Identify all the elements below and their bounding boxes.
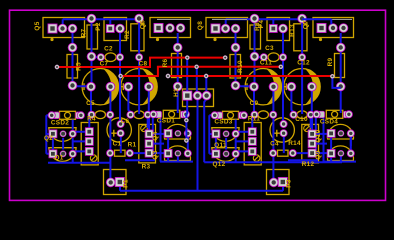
wire Q7 rail stub [302, 19, 331, 24]
svg-text:R1: R1 [128, 141, 137, 148]
pads C1 [117, 120, 124, 127]
pad wings CSD2/CSD1 [53, 111, 187, 118]
wire long mid rail [48, 162, 110, 164]
capacitor C1 outline [107, 118, 131, 142]
pads R1 [107, 150, 114, 157]
svg-text:CSD3: CSD3 [214, 119, 232, 126]
wire center vertical 1 [185, 58, 188, 141]
svg-text:C6: C6 [121, 118, 130, 125]
capacitor C6 outline [134, 111, 144, 119]
pad R7 top [87, 14, 96, 23]
pad C2 right [116, 54, 123, 61]
svg-text:Q10: Q10 [315, 129, 322, 142]
wire R3 stubs [149, 134, 168, 153]
wire R7 column [91, 19, 93, 87]
wire R4 stubs [73, 132, 89, 152]
pad R6 top [173, 43, 182, 52]
wire lower rail [160, 161, 193, 163]
trimpot R4 body [81, 123, 98, 165]
pad C5 left [88, 111, 95, 118]
resistor R6 body [172, 54, 182, 78]
wire R1 to R3 [130, 152, 149, 154]
wire CSD2 left link [46, 115, 51, 154]
svg-text:R10: R10 [237, 60, 244, 73]
wire Q6 / R6 column [177, 33, 179, 113]
svg-text:Q6: Q6 [140, 20, 147, 29]
svg-text:P2: P2 [95, 22, 102, 31]
pads Q3 [164, 149, 172, 157]
svg-text:R6: R6 [162, 58, 169, 67]
svg-text:Q3: Q3 [152, 150, 159, 159]
svg-text:C3: C3 [265, 45, 274, 52]
svg-text:R12: R12 [302, 161, 315, 168]
transistor Q2 outline (outer pair top, bowl) [49, 128, 76, 142]
capacitor C2 outline [105, 53, 116, 62]
wire bus bottom thick [120, 190, 283, 192]
pads R4 [85, 128, 93, 136]
pads Q4 [164, 129, 172, 137]
pad CSD2 cathode [77, 112, 84, 119]
svg-text:C8: C8 [139, 61, 148, 68]
silk inner gray lines Q6/Q8/Q7 [157, 18, 190, 20]
wire via to R9 pad [332, 76, 340, 88]
svg-text:P4: P4 [258, 20, 265, 29]
pad CSD2 anode [48, 112, 55, 119]
svg-text:P3: P3 [286, 179, 293, 188]
pad Q5-1 [48, 24, 57, 33]
svg-text:Q9: Q9 [315, 150, 322, 159]
svg-text:R9: R9 [327, 57, 334, 66]
svg-text:Q4: Q4 [152, 131, 159, 140]
transistor Q3 outline (inner pair bottom, dome) [165, 146, 191, 161]
trace S2 [121, 67, 281, 76]
resistor R5 body [67, 55, 78, 79]
trimpot R3 body [139, 124, 156, 162]
transistor Q6 body [150, 18, 191, 38]
pads R3 [145, 130, 153, 138]
trace S1 [57, 58, 225, 67]
svg-text:C5: C5 [86, 100, 95, 107]
pad C6 right [144, 111, 151, 118]
connector P1 body [104, 170, 127, 195]
svg-text:C4: C4 [270, 140, 279, 147]
wire right outer Q pad stub [350, 137, 352, 146]
svg-text:H1: H1 [173, 88, 180, 97]
resistor R7 body [87, 25, 98, 49]
pad Q5-3 [68, 24, 77, 33]
svg-text:CSD4: CSD4 [320, 119, 338, 126]
wire inner Q columns [168, 137, 188, 162]
svg-text:P1: P1 [123, 179, 130, 188]
diode CSD1 body [163, 110, 180, 118]
capacitor C5 outline [95, 111, 105, 119]
pad C8 + [124, 82, 133, 91]
wire center vertical 3 [204, 76, 206, 162]
pads Q1 [49, 150, 57, 158]
resistor R2 body [131, 24, 144, 51]
wire P2 pin1 up [109, 19, 111, 24]
wire C8 right col to R3 [148, 88, 150, 134]
pad R6 bottom [173, 82, 182, 91]
transistor Q1 outline (outer pair bottom, bowl) [49, 148, 76, 162]
pad C7 + [87, 82, 96, 91]
connector P2 body [104, 18, 127, 41]
svg-text:Q8: Q8 [197, 21, 204, 30]
wire P1 pin2 down [119, 186, 121, 191]
pad R5 top [68, 43, 77, 52]
svg-text:R7: R7 [81, 28, 88, 37]
svg-text:C9: C9 [250, 100, 259, 107]
column x160.5 [160, 118, 162, 162]
svg-text:R2: R2 [124, 30, 131, 39]
wire P2 pin2 / C2 / C1 column [119, 33, 121, 124]
pads Q2 [49, 130, 57, 138]
wire C6 right down [147, 115, 149, 128]
capacitor C7 outline [82, 69, 118, 105]
svg-text:C1: C1 [113, 141, 122, 148]
svg-text:R4: R4 [87, 115, 96, 122]
diode CSD2 body [60, 111, 76, 119]
capacitor C8 outline [121, 69, 157, 105]
pad Q6-3 [176, 24, 185, 33]
pad C6 left [127, 111, 134, 118]
pad CSD1 anode [150, 111, 157, 118]
svg-text:Q11: Q11 [214, 142, 227, 149]
svg-text:R13: R13 [289, 24, 296, 37]
wire C2 left pad link [92, 56, 101, 58]
svg-text:C2: C2 [104, 46, 113, 53]
wire mid stub [125, 159, 155, 161]
wire Q5 pin3 / R5 column [72, 33, 74, 86]
wire C1 to R1 [120, 137, 122, 153]
svg-text:CSD1: CSD1 [157, 118, 175, 125]
wire CSD1 left down [149, 114, 153, 152]
pad C8 - [144, 82, 153, 91]
pad P2-1 [106, 25, 114, 33]
wire Q pads columns [53, 120, 73, 163]
svg-text:Q5: Q5 [34, 21, 41, 30]
header H1 body [183, 89, 214, 107]
svg-text:R11: R11 [248, 116, 260, 123]
svg-text:C7: C7 [100, 61, 109, 68]
svg-text:CSD2: CSD2 [51, 119, 69, 126]
pad C2 left [97, 54, 104, 61]
svg-text:R5: R5 [75, 62, 82, 71]
pad Q5-2 [58, 24, 67, 33]
svg-text:Q7: Q7 [303, 20, 310, 29]
svg-text:C10: C10 [295, 116, 308, 123]
svg-text:Q1: Q1 [54, 155, 63, 162]
wire C7 right col to P1 [109, 88, 111, 182]
wire R2 column [138, 19, 140, 115]
pad R7 bottom [87, 52, 96, 61]
vias [55, 65, 59, 69]
pad CSD1 cathode [182, 111, 189, 118]
trace S3 [168, 75, 332, 77]
pad C5 right [107, 111, 114, 118]
pad P1-2 [115, 177, 124, 186]
svg-text:R3: R3 [142, 164, 151, 171]
resistor R1 body [115, 150, 126, 156]
wire C7 left col to R4 [89, 88, 91, 132]
svg-text:C12: C12 [297, 59, 310, 66]
pad P1-1 [106, 178, 115, 187]
wire top rail [63, 19, 139, 24]
svg-text:R14: R14 [288, 140, 301, 147]
pad C7 - [106, 82, 115, 91]
transistor Q5 body [43, 18, 85, 38]
pad Q6-2 [166, 24, 175, 33]
wire center vertical 2 [196, 67, 199, 191]
wire C8 left col [128, 88, 130, 115]
pad R5 bottom [68, 81, 77, 90]
pad R2 top [135, 14, 144, 23]
transistor Q4 outline (inner pair top, dome) [165, 124, 191, 139]
svg-text:Q12: Q12 [213, 161, 226, 168]
pad Q6-1 [154, 23, 163, 32]
pad C2-R2 mid [136, 54, 143, 61]
pad P2-2 [116, 24, 125, 33]
svg-text:C11: C11 [260, 59, 272, 66]
board outline [10, 10, 386, 200]
wire to C7 pad [73, 85, 92, 87]
svg-text:Q2: Q2 [44, 135, 53, 142]
pads H1 [183, 91, 192, 100]
